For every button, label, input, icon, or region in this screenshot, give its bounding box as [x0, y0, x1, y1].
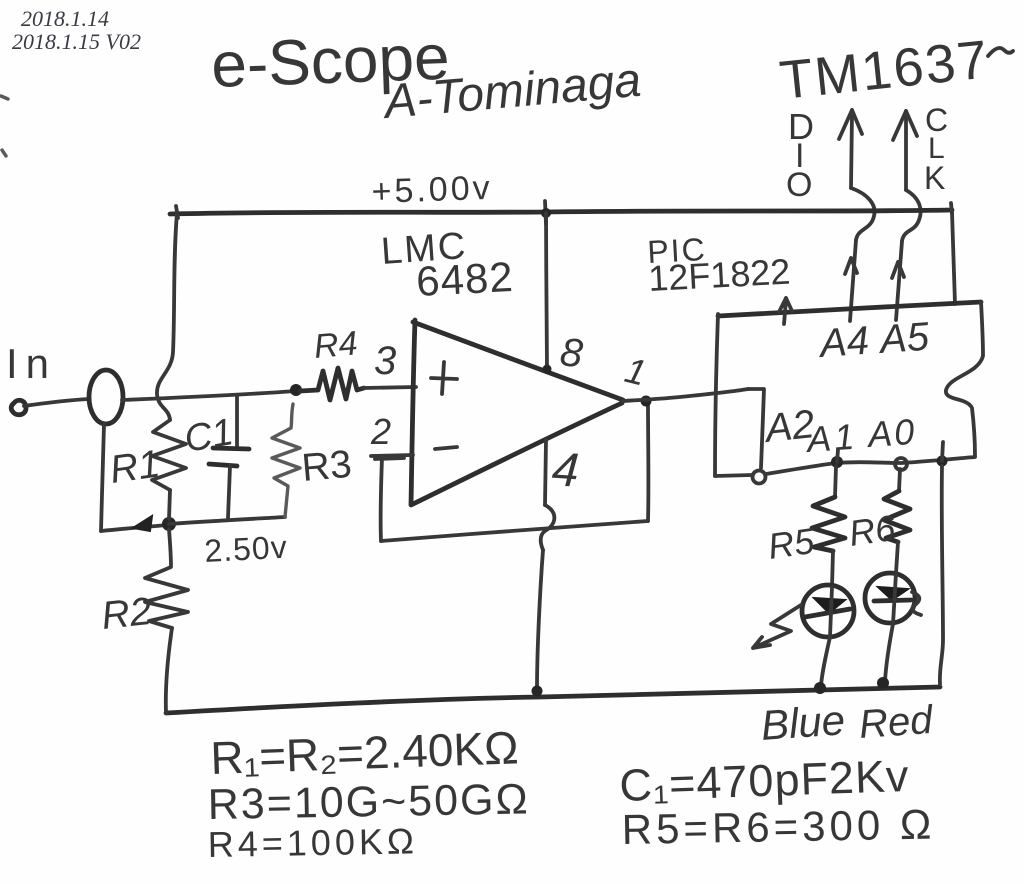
pin 4 wire to ground rail — [537, 550, 543, 689]
resistor R2 — [145, 529, 188, 628]
DIO arrow to TM1637 — [839, 110, 862, 188]
right pin blob — [937, 456, 948, 467]
input terminal circle — [11, 400, 26, 415]
LED D2 triangle — [878, 587, 908, 600]
svg-text:2.50v: 2.50v — [203, 529, 288, 569]
op-amp U1 triangle — [411, 320, 623, 505]
pin 8 supply wire — [546, 213, 547, 369]
PIC pin tick A3 — [779, 298, 792, 324]
svg-text:Red: Red — [858, 698, 936, 747]
output wire pin1 to PIC — [623, 389, 748, 401]
pin 4 wire upper — [545, 440, 546, 505]
feedback wire right vertical — [646, 404, 650, 521]
right pin wire down to ground rail — [940, 466, 943, 684]
PIC U2 outline bottom edge — [766, 457, 975, 474]
svg-text:A1: A1 — [804, 416, 859, 461]
capacitor C1 bottom plate — [209, 464, 237, 466]
CLK wire hop over +5V rail — [902, 190, 921, 241]
LED D2 light mark — [912, 592, 921, 615]
CLK arrow to TM1637 — [893, 111, 917, 190]
paper speck left edge — [1, 96, 8, 99]
wire output corner down to pin A2 — [748, 389, 764, 468]
capacitor C1 top plate — [213, 448, 249, 449]
op-amp plus sign — [431, 362, 457, 394]
LED D2 red circle — [865, 573, 915, 623]
resistor R1 — [152, 420, 186, 490]
DIO wire arrowhead mid — [845, 258, 857, 274]
right rail corner tick — [951, 203, 952, 214]
svg-text:Blue: Blue — [759, 696, 846, 749]
svg-text:C1: C1 — [181, 411, 236, 461]
wire input to connector — [24, 399, 89, 406]
CLK wire arrowhead mid — [892, 262, 904, 278]
bottom ground rail wire — [166, 687, 940, 713]
node A junction dot — [290, 384, 302, 396]
LED D1 blue circle — [802, 585, 854, 637]
svg-text:R4=100KΩ: R4=100KΩ — [207, 820, 418, 865]
wire R5 to LED D1 — [832, 551, 833, 587]
svg-text:In: In — [6, 340, 57, 387]
capacitor C1 top lead — [235, 396, 239, 446]
feedback wire left vertical — [381, 458, 382, 541]
wire A0 to R6 — [899, 469, 900, 491]
svg-text:R5: R5 — [765, 520, 817, 567]
op-amp minus sign — [435, 447, 457, 449]
svg-text:A4: A4 — [817, 319, 871, 366]
output node junction blob — [641, 396, 652, 407]
LED D1 cathode bar — [805, 609, 850, 617]
LED D2 ground blob — [877, 677, 889, 689]
svg-text:2018.1.14: 2018.1.14 — [21, 6, 109, 31]
PIC U2 outline top edge — [718, 302, 981, 316]
right pin tick above — [942, 442, 943, 461]
feedback wire bottom — [381, 521, 648, 541]
+5V top rail wire — [170, 210, 952, 214]
LED D2 lead through — [893, 573, 896, 624]
resistor R4 — [300, 368, 364, 400]
svg-text:R3: R3 — [300, 443, 353, 490]
pin A1 blob — [831, 456, 843, 468]
svg-text:K: K — [924, 160, 945, 196]
DIO wire from PIC pin A? up — [850, 240, 856, 321]
PIC U2 outline right edge with notch — [946, 302, 983, 456]
pin 2 stub wire — [371, 455, 413, 459]
DIO wire hop over +5V rail — [851, 188, 875, 240]
LED D1 wire to ground rail — [821, 637, 830, 686]
resistor R5 — [812, 497, 845, 551]
LED D1 light arrow — [753, 605, 801, 648]
paper speck left edge 2 — [2, 150, 6, 156]
pin A0 circle — [895, 458, 907, 470]
svg-text:+5.00v: +5.00v — [371, 169, 493, 211]
pin A1 tick — [837, 450, 838, 462]
svg-text:R2: R2 — [99, 590, 153, 638]
PIC U2 outline left edge — [715, 314, 718, 476]
wire R6 to LED D2 — [896, 542, 898, 573]
LED D1 lead through — [830, 587, 832, 637]
svg-text:R5=R6=300 Ω: R5=R6=300 Ω — [621, 801, 935, 853]
pin 4 wire hop over feedback — [541, 505, 555, 550]
svg-text:2018.1.15 V02: 2018.1.15 V02 — [12, 29, 141, 54]
LED D2 wire to ground rail — [885, 624, 893, 681]
top-left corner overshoot — [176, 206, 178, 218]
LED D1 triangle — [814, 598, 845, 613]
svg-text:R₁=R₂=2.40KΩ: R₁=R₂=2.40KΩ — [210, 721, 520, 784]
pin8 supply junction tick — [545, 201, 546, 224]
LED D2 cathode bar — [874, 600, 911, 601]
svg-text:R1: R1 — [107, 442, 162, 492]
connector oval J1 — [89, 370, 123, 424]
right rail wire down to PIC — [952, 212, 955, 304]
wire 2.50v bus left — [101, 525, 167, 531]
CLK wire from PIC pin up — [896, 241, 902, 320]
capacitor C1 bottom lead — [228, 466, 230, 518]
wire R2 to ground rail — [166, 628, 172, 713]
LED D1 ground blob — [814, 682, 826, 694]
arrow mark on 2.50v bus — [133, 516, 152, 531]
svg-text:4: 4 — [550, 443, 580, 498]
svg-text:A5: A5 — [877, 315, 932, 362]
svg-text:12F1822: 12F1822 — [647, 251, 791, 299]
svg-text:O: O — [786, 166, 812, 204]
node B junction blob — [162, 517, 176, 531]
pin 8 junction blob on triangle — [543, 365, 552, 374]
svg-text:2: 2 — [370, 411, 391, 452]
PIC U2 outline bottom-left stub — [715, 475, 752, 476]
wire R1 to node B — [169, 490, 170, 519]
pin 4 ground junction blob — [532, 686, 543, 697]
pin A2 circle — [753, 471, 766, 484]
resistor R3 — [272, 404, 300, 517]
wire R4 to pin 3 — [364, 387, 416, 388]
svg-text:6482: 6482 — [415, 253, 515, 305]
resistor R6 — [884, 491, 910, 542]
svg-text:R6: R6 — [846, 507, 898, 554]
wire connector to node A — [122, 391, 296, 400]
svg-text:A0: A0 — [865, 411, 918, 455]
pin8 supply junction blob — [541, 208, 551, 218]
svg-text:R4: R4 — [312, 324, 359, 366]
tilde mark after TM1637 — [988, 48, 1013, 56]
left rail wire down from +5V — [157, 213, 177, 420]
svg-text:3: 3 — [374, 339, 396, 383]
wire A1 to R5 — [835, 466, 836, 497]
wire 2.50v bus right — [169, 517, 285, 524]
connector shield lead down — [101, 424, 104, 531]
